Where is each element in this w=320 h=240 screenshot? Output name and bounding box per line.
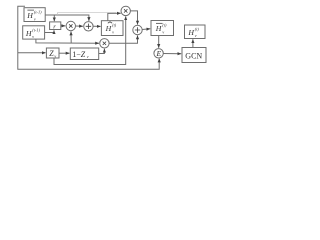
box Z	[46, 48, 59, 58]
box r	[50, 22, 61, 30]
symbol x in A	[69, 24, 72, 27]
label H(t)	[187, 26, 199, 38]
wire x C right down into + D top	[130, 11, 137, 25]
svg-text:(t): (t)	[195, 26, 200, 31]
wire Z to 1-Z	[59, 52, 70, 54]
svg-text:H: H	[187, 28, 194, 37]
wire Z bottom loop to x C bottom	[54, 16, 126, 64]
box 1-Z	[70, 48, 98, 60]
multiplier circle A	[66, 21, 75, 30]
multiplier circle E'	[100, 39, 109, 48]
wire 1-Z right up into x E' bottom	[99, 49, 105, 54]
wire loop from H_bar(t-1) area down-left-bottom to E	[18, 6, 159, 69]
label H(t-1)	[25, 27, 41, 39]
label H_bar(t)	[155, 23, 167, 35]
wire E to GCN	[163, 53, 181, 55]
svg-text:(t): (t)	[162, 23, 167, 28]
svg-text:H: H	[26, 11, 33, 20]
wire + D to H_bar(t) box	[142, 28, 150, 31]
wire H(t-1) bottom to x E' left	[36, 39, 99, 43]
label H_bar(t-1)	[26, 10, 42, 22]
box H_bar(t-1)	[24, 8, 45, 22]
svg-text:E: E	[155, 49, 161, 58]
wire r to x A	[61, 25, 66, 27]
svg-text:(t): (t)	[112, 23, 117, 28]
svg-text:(t-1): (t-1)	[34, 10, 42, 15]
wire branch up into x A bottom	[70, 32, 72, 43]
symbol x in C	[124, 9, 127, 12]
label Z	[49, 49, 56, 59]
svg-text:v: v	[112, 29, 114, 34]
svg-text:v: v	[34, 16, 36, 21]
box H_bar(t)	[151, 21, 174, 36]
box H(t)	[185, 25, 206, 39]
svg-text:v: v	[54, 54, 56, 59]
combiner circle E	[154, 49, 163, 58]
wire x A to + B	[76, 25, 83, 27]
svg-text:v: v	[87, 54, 89, 59]
multiplier circle C	[121, 6, 130, 15]
svg-text:v: v	[195, 33, 197, 38]
svg-text:1−Z: 1−Z	[72, 50, 85, 59]
symbol + in B	[86, 24, 91, 29]
svg-text:v: v	[162, 29, 164, 34]
wire H(t-1) right up into r bottom	[45, 30, 54, 32]
wire W1 from H_bar(t-1) right	[45, 15, 89, 21]
symbol x in E'	[103, 42, 106, 45]
box Hhat(t)	[101, 21, 123, 36]
adder circle D	[133, 25, 142, 34]
wire + B to Hhat box	[93, 25, 101, 27]
wire drop into r top	[53, 15, 55, 21]
box H(t-1)	[23, 26, 45, 39]
svg-text:v: v	[32, 34, 34, 39]
svg-text:(t-1): (t-1)	[32, 27, 40, 32]
symbol + in D	[135, 27, 140, 32]
label 1-Z	[72, 50, 88, 59]
wire H_bar(t) bottom into E top	[158, 36, 160, 48]
svg-text:GCN: GCN	[185, 51, 202, 60]
wire faint upper to x C	[58, 13, 117, 15]
wire Hhat top to x C	[108, 13, 121, 21]
box GCN	[182, 48, 206, 63]
wire GCN top up into H(t) bottom	[192, 39, 194, 47]
svg-text:H: H	[155, 24, 162, 33]
wire Z input branch	[18, 52, 46, 54]
svg-text:H: H	[105, 24, 112, 33]
svg-text:H: H	[25, 29, 32, 38]
label Hhat(t)	[105, 22, 117, 35]
adder circle B	[84, 22, 93, 31]
wire x E' right up into + D bottom	[109, 36, 137, 44]
